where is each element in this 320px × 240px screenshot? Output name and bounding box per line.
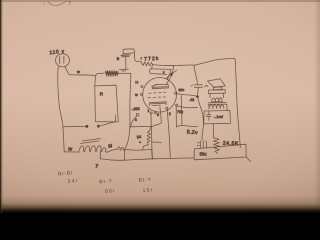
wire grid return <box>130 125 151 127</box>
svg-text:w: w <box>77 69 80 74</box>
wire pin5 to coupling node <box>177 94 197 97</box>
svg-text:34r: 34r <box>67 178 79 185</box>
tube pin 5 terminal <box>175 92 177 94</box>
right edge shade <box>314 0 320 213</box>
heater pin H <box>141 86 143 88</box>
switch S1 <box>86 115 116 127</box>
svg-text:Br-Y: Br-Y <box>99 178 113 185</box>
speaker LS1 cone <box>208 79 226 88</box>
pin 6 terminal <box>155 112 157 114</box>
svg-text:+: + <box>139 140 141 144</box>
svg-text:15r: 15r <box>143 187 154 194</box>
partial circle doodle at top edge <box>48 1 67 6</box>
wire screen drop <box>180 96 183 125</box>
svg-text:B: B <box>117 56 120 61</box>
wire switch feed <box>63 126 86 128</box>
wire tap left to lower bus <box>99 151 101 159</box>
wire plug left lead down to transformer <box>58 67 64 152</box>
top edge shade <box>0 0 320 2</box>
inductor L1 choke <box>105 71 119 77</box>
svg-text:Br: Br <box>68 147 73 152</box>
pin 1 terminal <box>150 112 152 114</box>
speaker magnet plate <box>208 90 225 94</box>
transformer T2 primary winding <box>211 98 222 102</box>
speaker bobbin sides <box>210 93 224 98</box>
svg-text:50u: 50u <box>200 152 208 157</box>
left edge shadow <box>0 0 3 213</box>
svg-text:w: w <box>135 93 138 97</box>
svg-text:2: 2 <box>169 112 171 116</box>
speaker lead marks <box>205 85 208 87</box>
wire B to ground <box>125 57 127 69</box>
transformer T1 primary winding <box>79 146 108 152</box>
ground <box>119 69 128 71</box>
transformer T1 core <box>81 139 101 144</box>
svg-text:v: v <box>163 71 165 75</box>
svg-text:Bl: Bl <box>108 143 112 148</box>
svg-text:Br-Bl: Br-Bl <box>58 170 73 177</box>
svg-text:H: H <box>135 79 138 84</box>
svg-text:-.082: -.082 <box>131 107 139 112</box>
wire transformer right lead <box>209 104 227 110</box>
pin 2 terminal <box>166 107 168 109</box>
resistor R1 772k <box>141 62 152 66</box>
wire screen bypass horizontal <box>176 125 197 127</box>
svg-text:50u: 50u <box>178 88 184 92</box>
wire pin4 to left vertical <box>130 116 136 127</box>
wire right edge down <box>234 59 240 148</box>
svg-text:6: 6 <box>157 113 159 117</box>
transformer T2 core <box>208 102 226 104</box>
pin 4 terminal <box>136 113 139 116</box>
wire plate lead to top <box>166 65 173 84</box>
wire junction down to 50u cap <box>198 97 204 140</box>
tube grid dashes row 2 <box>148 96 166 99</box>
svg-text:.02: .02 <box>189 98 194 102</box>
resistance box R <box>95 85 119 122</box>
wire pin7 right to B+ node <box>178 106 198 108</box>
wire box overshoot <box>246 157 250 162</box>
AC plug P1 110v <box>56 54 70 67</box>
box around C3 R3 <box>194 144 246 160</box>
wire drop to box R <box>94 76 97 86</box>
heater pin w <box>140 93 142 95</box>
svg-text:-.1mf: -.1mf <box>214 114 224 119</box>
svg-text:1: 1 <box>147 109 149 113</box>
wire right vertical of input loop <box>124 73 131 160</box>
tube grid dashes row 1 <box>149 91 166 94</box>
svg-text:Bl-Y: Bl-Y <box>139 177 152 184</box>
wire pin2 down to ground bus <box>167 109 170 158</box>
resistor R2 cathode bias <box>143 131 151 150</box>
wire plug right lead <box>65 66 96 76</box>
wire cathode lead <box>150 107 162 131</box>
pin 7 terminal <box>176 104 178 106</box>
grid coupling loop <box>149 65 176 80</box>
resistor R3 24.5K <box>214 138 220 154</box>
vacuum tube V1 envelope <box>143 78 177 113</box>
wire upper bus junction <box>151 149 154 158</box>
wire cap to junction <box>197 88 200 97</box>
wire choke to right corner <box>118 72 130 74</box>
wire cathode stub <box>152 141 162 143</box>
wire C2 box to R3 <box>212 124 214 138</box>
wire top rail drop <box>194 65 198 84</box>
wire secondary to upper bus <box>108 149 152 152</box>
svg-text:4: 4 <box>135 118 137 122</box>
wire corner up to line filter box top <box>96 73 104 76</box>
capacitor C1 plates <box>191 85 203 88</box>
wire bottom corner to transformer T1 <box>64 150 79 153</box>
wire B hook to grid resistor <box>134 53 141 62</box>
bottom shadow band <box>0 196 320 213</box>
transformer T2 secondary winding <box>209 105 224 109</box>
svg-text:5.2v: 5.2v <box>187 130 198 137</box>
wire lower ground bus <box>100 158 194 160</box>
speaker magnet <box>213 87 222 90</box>
box around C2 <box>204 111 231 124</box>
tube cathode <box>149 102 166 106</box>
node junction <box>197 96 199 98</box>
svg-text:70k: 70k <box>177 110 183 114</box>
wire B+ top rail <box>153 58 235 65</box>
transformer T1 secondary winding <box>117 147 124 151</box>
capacitor C3 50u <box>197 141 206 149</box>
wire pin7 drop <box>175 106 177 126</box>
input device B <box>121 49 134 57</box>
svg-text:68r: 68r <box>105 188 116 195</box>
capacitor C2 .1mf <box>206 112 211 121</box>
tube plate <box>152 84 169 88</box>
wire pin1 down to ground bus <box>151 114 152 159</box>
svg-text:772k: 772k <box>144 56 160 63</box>
